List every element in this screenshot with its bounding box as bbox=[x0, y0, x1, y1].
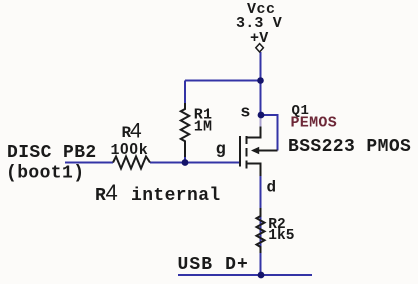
svg-text:1: 1 bbox=[111, 142, 120, 159]
svg-text:0: 0 bbox=[120, 141, 129, 158]
svg-text:+V: +V bbox=[250, 30, 268, 47]
svg-text:BSS223 PMOS: BSS223 PMOS bbox=[288, 137, 411, 157]
svg-text:g: g bbox=[216, 141, 226, 160]
svg-text:4: 4 bbox=[106, 180, 118, 205]
svg-text:d: d bbox=[267, 179, 277, 197]
svg-text:PEMOS: PEMOS bbox=[291, 115, 338, 132]
svg-text:0: 0 bbox=[129, 141, 138, 158]
svg-text:DISC PB2: DISC PB2 bbox=[7, 143, 97, 163]
svg-text:1k5: 1k5 bbox=[268, 228, 294, 244]
svg-text:(boot1): (boot1) bbox=[6, 164, 84, 184]
svg-text:internal: internal bbox=[131, 186, 221, 206]
svg-text:k: k bbox=[139, 142, 148, 159]
svg-text:4: 4 bbox=[130, 120, 142, 143]
svg-text:1M: 1M bbox=[194, 119, 212, 136]
svg-text:USB D+: USB D+ bbox=[178, 255, 249, 275]
svg-text:s: s bbox=[240, 104, 250, 123]
